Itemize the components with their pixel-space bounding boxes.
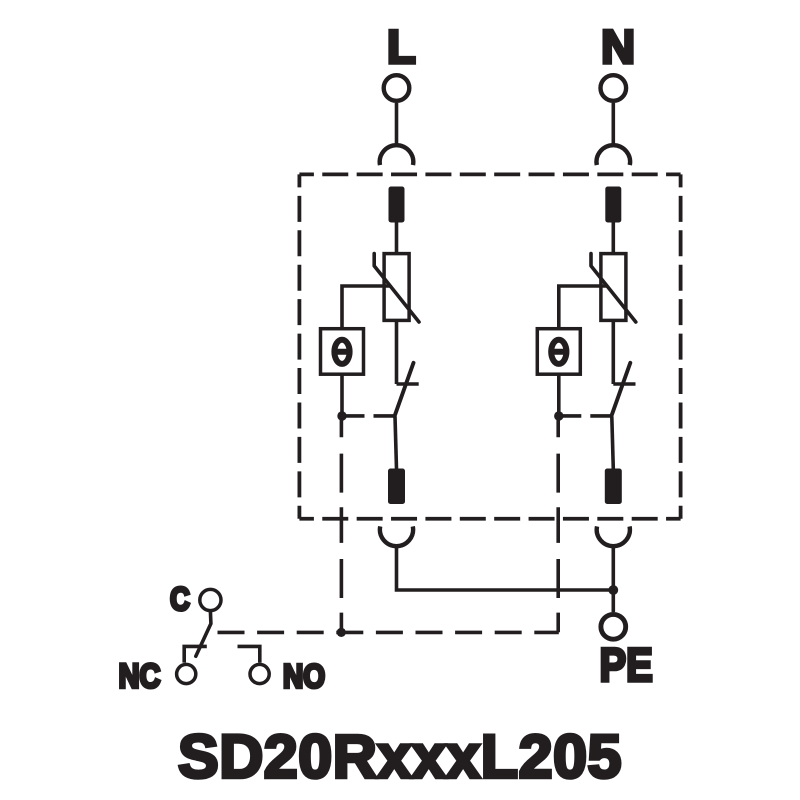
junction dot L	[337, 411, 346, 420]
junction dot linkage	[337, 628, 346, 637]
wire N bottom socket to PE junction	[611, 546, 615, 612]
terminal N circle	[601, 75, 627, 101]
wire pivot to bottom fuse L	[395, 416, 397, 469]
NO terminal circle	[250, 664, 269, 683]
mechanical linkage horizontal to contacts	[218, 631, 559, 635]
varistor MOV N	[591, 254, 636, 322]
terminal L circle	[384, 75, 410, 101]
svg-text:SD20RxxxL205: SD20RxxxL205	[178, 723, 622, 791]
wire L terminal to socket	[395, 103, 399, 146]
disconnect switch blade N	[611, 363, 630, 417]
socket arc top L	[380, 145, 414, 165]
remote contact C terminal circle	[200, 589, 221, 610]
changeover switch blade	[196, 611, 211, 656]
svg-text:C: C	[170, 582, 190, 618]
mechanical linkage vertical N	[556, 416, 560, 632]
svg-text:NO: NO	[283, 658, 325, 695]
theta branch wire L	[342, 286, 391, 329]
theta branch wire N	[559, 286, 608, 329]
NO contact lead	[238, 646, 260, 662]
varistor MOV L	[374, 254, 419, 322]
enclosure dashed box top edge	[299, 172, 680, 176]
thermal contact tick N	[613, 382, 635, 386]
fuse disconnector top L	[389, 187, 405, 223]
wire pivot to bottom fuse N	[612, 416, 614, 469]
thermal element theta L	[321, 329, 364, 375]
svg-text:N: N	[601, 20, 635, 73]
wire theta to junction N	[557, 374, 561, 416]
PE terminal circle	[601, 614, 626, 639]
svg-text:NC: NC	[119, 656, 161, 695]
disconnect switch blade L	[395, 363, 414, 417]
wire L bottom socket to PE bus	[397, 546, 614, 590]
wire varistor to contact N	[611, 320, 615, 384]
thermal element theta N	[537, 329, 580, 375]
mechanical linkage horizontal L	[342, 414, 395, 418]
wire varistor to contact L	[395, 320, 399, 384]
junction dot N	[554, 411, 563, 420]
mechanical linkage horizontal N	[559, 414, 612, 418]
svg-text:L: L	[387, 20, 416, 73]
svg-text:PE: PE	[600, 640, 653, 692]
socket arc bottom N	[597, 526, 630, 546]
wire N terminal to socket	[611, 103, 615, 146]
fuse disconnector top N	[605, 187, 621, 223]
enclosure dashed box bottom edge	[299, 517, 680, 521]
thermal contact tick L	[397, 382, 419, 386]
NC terminal circle	[177, 664, 196, 683]
bottom fuse disconnector L	[388, 469, 405, 505]
socket arc bottom L	[380, 526, 413, 546]
wire fuse to varistor N	[611, 223, 615, 256]
enclosure dashed box left edge	[297, 174, 301, 518]
junction dot PE bus	[608, 585, 618, 595]
socket arc top N	[597, 145, 631, 165]
mechanical linkage vertical L	[340, 416, 344, 632]
enclosure dashed box right edge	[679, 174, 683, 518]
bottom fuse disconnector N	[605, 469, 622, 505]
wire theta to junction L	[340, 374, 344, 416]
wire fuse to varistor L	[395, 223, 399, 256]
NC contact lead	[184, 646, 207, 662]
